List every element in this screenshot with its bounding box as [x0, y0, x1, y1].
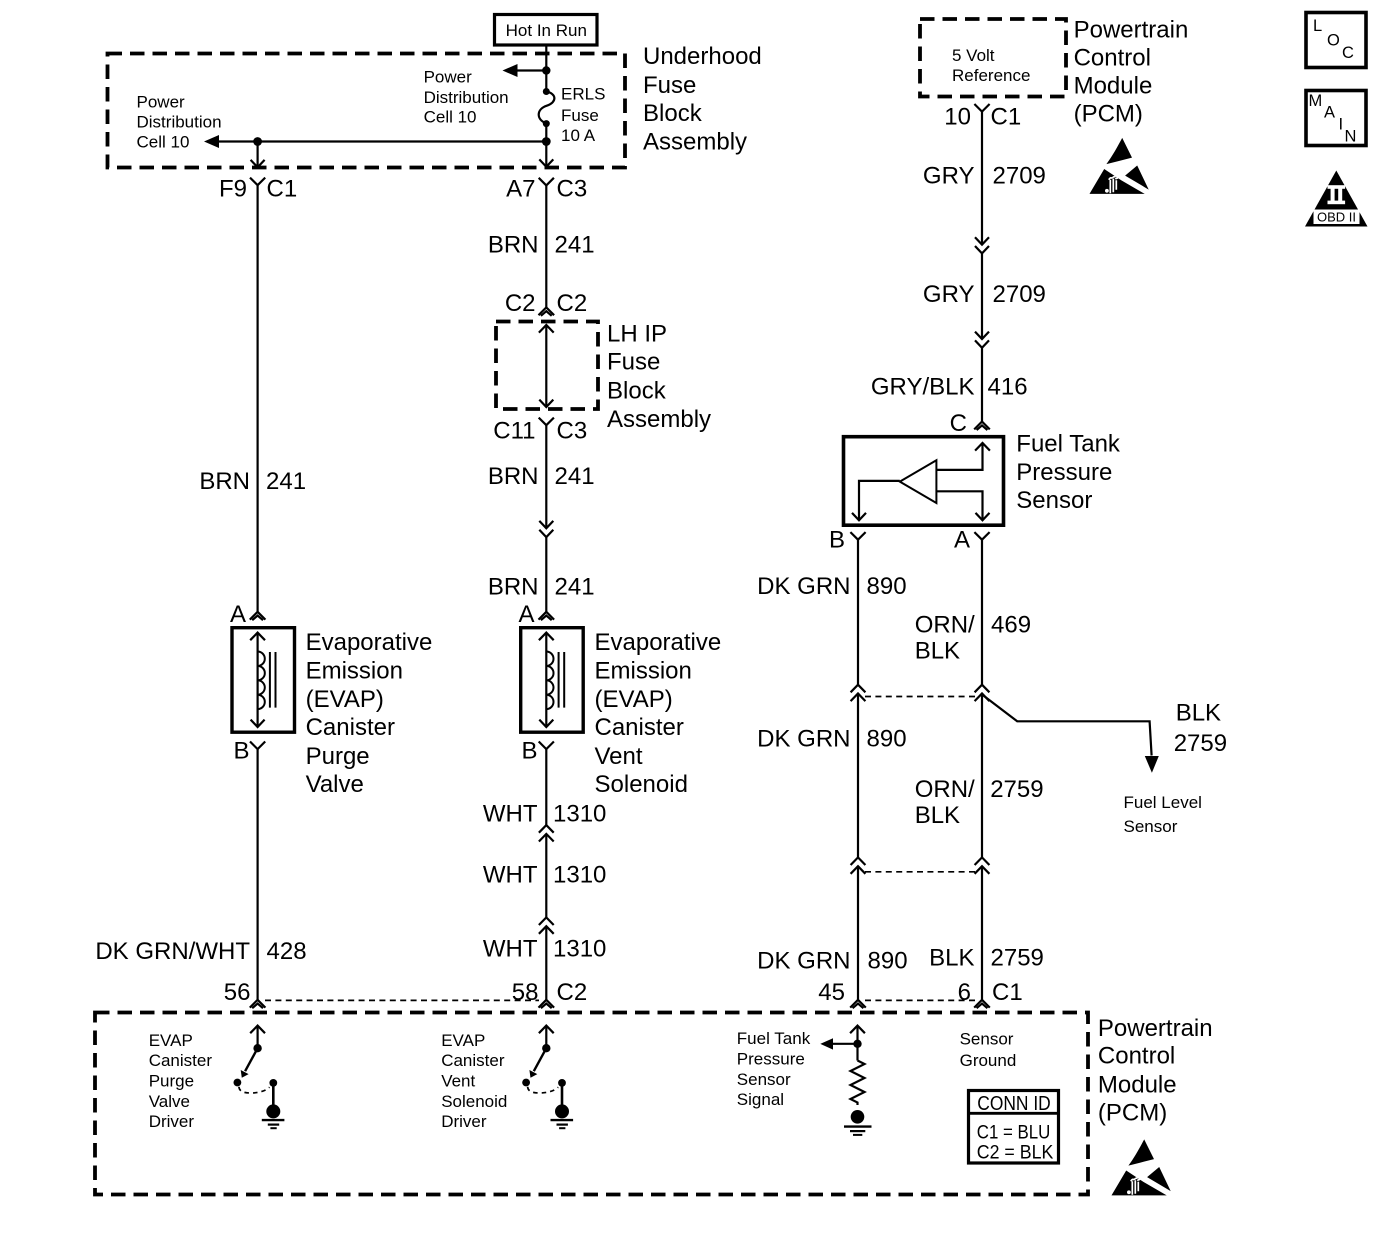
svg-text:Cell 10: Cell 10: [137, 133, 190, 152]
svg-text:B: B: [829, 527, 845, 554]
svg-text:DK GRN: DK GRN: [757, 573, 850, 600]
svg-text:C3: C3: [557, 175, 588, 202]
svg-text:Distribution: Distribution: [137, 113, 222, 132]
svg-text:Evaporative: Evaporative: [306, 629, 433, 656]
svg-text:Valve: Valve: [149, 1092, 190, 1111]
svg-text:Solenoid: Solenoid: [441, 1092, 507, 1111]
svg-text:Purge: Purge: [306, 743, 370, 770]
svg-text:B: B: [233, 738, 249, 765]
svg-text:Emission: Emission: [595, 658, 692, 685]
svg-text:BLK: BLK: [915, 638, 960, 665]
svg-text:ORN/: ORN/: [915, 776, 975, 803]
svg-text:416: 416: [988, 373, 1028, 400]
svg-text:Canister: Canister: [595, 714, 684, 741]
svg-text:B: B: [521, 738, 537, 765]
svg-text:Sensor: Sensor: [960, 1029, 1014, 1048]
svg-text:2759: 2759: [990, 776, 1043, 803]
svg-text:(PCM): (PCM): [1098, 1100, 1167, 1127]
svg-text:Canister: Canister: [441, 1051, 505, 1070]
svg-text:C2: C2: [557, 290, 588, 317]
svg-text:469: 469: [991, 611, 1031, 638]
svg-text:C2 = BLK: C2 = BLK: [977, 1143, 1054, 1164]
svg-text:890: 890: [867, 573, 907, 600]
svg-text:6: 6: [958, 979, 971, 1006]
svg-text:Emission: Emission: [306, 658, 403, 685]
svg-text:Driver: Driver: [441, 1112, 487, 1131]
svg-text:BRN: BRN: [488, 463, 539, 490]
svg-text:Power: Power: [137, 92, 186, 111]
svg-text:WHT: WHT: [483, 936, 538, 963]
svg-text:56: 56: [224, 979, 251, 1006]
svg-text:2709: 2709: [993, 163, 1046, 190]
svg-text:A7: A7: [506, 175, 535, 202]
svg-text:Canister: Canister: [306, 714, 395, 741]
svg-text:241: 241: [555, 574, 595, 601]
svg-text:BRN: BRN: [199, 468, 250, 495]
svg-text:Fuel Tank: Fuel Tank: [737, 1029, 811, 1048]
svg-text:GRY: GRY: [923, 163, 975, 190]
svg-text:O: O: [1327, 31, 1340, 49]
svg-text:Module: Module: [1098, 1072, 1177, 1099]
svg-text:Sensor: Sensor: [1124, 817, 1178, 836]
svg-text:5 Volt: 5 Volt: [952, 46, 995, 65]
svg-text:A: A: [1324, 104, 1335, 122]
svg-text:241: 241: [555, 231, 595, 258]
svg-text:(PCM): (PCM): [1074, 100, 1143, 127]
svg-text:1310: 1310: [553, 862, 606, 889]
svg-text:890: 890: [868, 948, 908, 975]
svg-text:Module: Module: [1074, 72, 1153, 99]
svg-text:2759: 2759: [991, 945, 1044, 972]
svg-text:WHT: WHT: [483, 862, 538, 889]
svg-text:M: M: [1309, 92, 1323, 110]
svg-text:241: 241: [266, 468, 306, 495]
svg-text:Cell 10: Cell 10: [424, 108, 477, 127]
svg-text:C1 = BLU: C1 = BLU: [977, 1123, 1051, 1144]
svg-text:C3: C3: [557, 418, 588, 445]
svg-text:EVAP: EVAP: [441, 1031, 485, 1050]
svg-text:C2: C2: [557, 979, 588, 1006]
svg-text:Powertrain: Powertrain: [1098, 1015, 1213, 1042]
svg-text:A: A: [518, 601, 534, 628]
svg-text:Vent: Vent: [441, 1072, 475, 1091]
svg-text:GRY/BLK: GRY/BLK: [871, 373, 975, 400]
svg-text:Valve: Valve: [306, 771, 364, 798]
svg-text:GRY: GRY: [923, 281, 975, 308]
svg-text:DK GRN: DK GRN: [757, 726, 850, 753]
svg-text:CONN ID: CONN ID: [977, 1093, 1051, 1115]
svg-text:C1: C1: [267, 175, 298, 202]
svg-text:Fuse: Fuse: [643, 72, 696, 99]
svg-text:890: 890: [867, 726, 907, 753]
svg-text:(EVAP): (EVAP): [306, 686, 384, 713]
svg-text:Purge: Purge: [149, 1072, 194, 1091]
svg-text:Ground: Ground: [960, 1051, 1017, 1070]
svg-text:OBD II: OBD II: [1317, 210, 1356, 225]
svg-text:C11: C11: [493, 418, 535, 445]
svg-text:C: C: [1342, 44, 1354, 62]
svg-text:BLK: BLK: [1176, 700, 1221, 727]
svg-text:C: C: [950, 410, 967, 437]
svg-text:BLK: BLK: [915, 802, 960, 829]
svg-text:45: 45: [818, 979, 845, 1006]
svg-text:Control: Control: [1098, 1043, 1175, 1070]
svg-text:F9: F9: [219, 175, 247, 202]
svg-text:Sensor: Sensor: [737, 1070, 791, 1089]
svg-text:DK GRN: DK GRN: [757, 948, 850, 975]
svg-text:Signal: Signal: [737, 1090, 784, 1109]
svg-text:Fuel Level: Fuel Level: [1124, 793, 1202, 812]
svg-text:L: L: [1313, 17, 1322, 35]
svg-text:Canister: Canister: [149, 1051, 213, 1070]
svg-text:Assembly: Assembly: [643, 129, 747, 156]
svg-text:ORN/: ORN/: [915, 611, 975, 638]
svg-text:Underhood: Underhood: [643, 43, 762, 70]
svg-text:C1: C1: [992, 979, 1023, 1006]
svg-text:Pressure: Pressure: [1016, 459, 1112, 486]
svg-text:N: N: [1345, 128, 1357, 146]
svg-text:Block: Block: [607, 377, 667, 404]
svg-text:BRN: BRN: [488, 574, 539, 601]
svg-text:Fuel Tank: Fuel Tank: [1016, 431, 1121, 458]
svg-text:BRN: BRN: [488, 231, 539, 258]
svg-text:(EVAP): (EVAP): [595, 686, 673, 713]
svg-text:2709: 2709: [993, 281, 1046, 308]
svg-text:EVAP: EVAP: [149, 1031, 193, 1050]
svg-text:I: I: [1339, 116, 1344, 134]
svg-text:Fuse: Fuse: [607, 349, 660, 376]
svg-text:Evaporative: Evaporative: [595, 629, 722, 656]
svg-text:2759: 2759: [1174, 730, 1227, 757]
svg-text:Pressure: Pressure: [737, 1049, 805, 1068]
svg-text:Distribution: Distribution: [424, 88, 509, 107]
svg-text:Fuse: Fuse: [561, 106, 599, 125]
svg-text:DK GRN/WHT: DK GRN/WHT: [95, 938, 250, 965]
svg-text:428: 428: [267, 938, 307, 965]
svg-text:10: 10: [944, 104, 971, 131]
svg-text:ERLS: ERLS: [561, 84, 605, 103]
svg-text:Hot In Run: Hot In Run: [506, 21, 587, 40]
svg-text:C1: C1: [991, 104, 1022, 131]
svg-text:C2: C2: [505, 290, 536, 317]
svg-text:Block: Block: [643, 100, 703, 127]
svg-text:Power: Power: [424, 68, 473, 87]
svg-text:Assembly: Assembly: [607, 406, 711, 433]
svg-text:A: A: [954, 527, 970, 554]
svg-text:A: A: [230, 601, 246, 628]
svg-text:1310: 1310: [553, 801, 606, 828]
svg-text:WHT: WHT: [483, 801, 538, 828]
svg-text:1310: 1310: [553, 936, 606, 963]
svg-text:10 A: 10 A: [561, 126, 596, 145]
svg-text:BLK: BLK: [929, 945, 974, 972]
svg-text:241: 241: [555, 463, 595, 490]
svg-text:Sensor: Sensor: [1016, 487, 1092, 514]
svg-text:Reference: Reference: [952, 66, 1030, 85]
svg-text:Driver: Driver: [149, 1112, 195, 1131]
svg-text:Solenoid: Solenoid: [595, 771, 688, 798]
svg-text:Control: Control: [1074, 44, 1151, 71]
svg-text:Vent: Vent: [595, 743, 643, 770]
svg-text:58: 58: [512, 979, 539, 1006]
svg-text:LH IP: LH IP: [607, 320, 667, 347]
svg-text:Powertrain: Powertrain: [1074, 16, 1189, 43]
